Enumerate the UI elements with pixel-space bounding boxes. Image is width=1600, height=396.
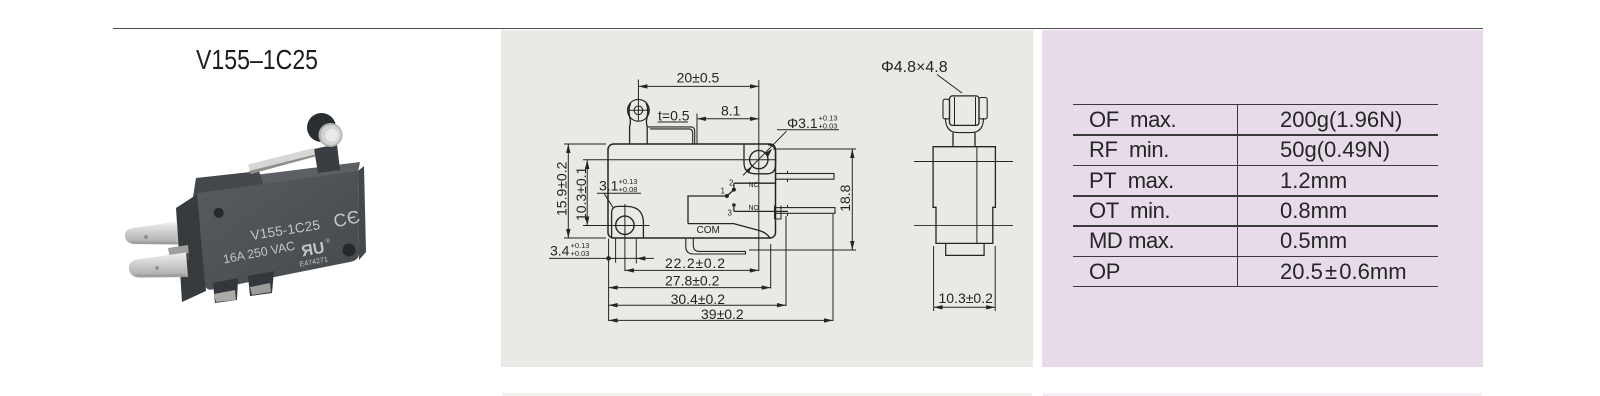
dimension 20±0.5 (638, 70, 759, 143)
product title V155-1C25 (196, 44, 318, 76)
table text (1089, 105, 1449, 287)
dimension 30.4±0.2 (609, 291, 786, 308)
bottom-left mounting boss (612, 206, 644, 237)
lever arm (248, 148, 315, 174)
left side face (176, 193, 206, 302)
dimension 39±0.2 (609, 306, 833, 323)
bottom-left mounting hole (616, 216, 634, 234)
moving contact arm (727, 190, 734, 196)
roller dark back (307, 113, 336, 142)
bottom hole vertical centerline / 22.2 extension (624, 204, 626, 271)
side view centerline 2 (914, 225, 1013, 227)
dimension 18.8 (749, 149, 856, 250)
label Phi 3.1 with tolerance (787, 114, 837, 131)
dimension 10.3±0.1 (573, 160, 589, 226)
NC contact line (734, 182, 776, 184)
bottom feet (213, 278, 238, 303)
roller crosshair (628, 109, 649, 111)
plunger below roller (629, 119, 632, 145)
COM terminal hook (686, 239, 746, 254)
dimension 15.9±0.2 (553, 144, 606, 238)
bottom gray sliver (502, 393, 1032, 396)
front face (197, 171, 359, 290)
top hole vertical centerline / 22.2 extension (758, 143, 760, 271)
table divider (1237, 104, 1238, 288)
pink table panel (1042, 30, 1483, 367)
right terminals (776, 174, 834, 180)
bottom pink sliver (1043, 393, 1482, 396)
lever strip t=0.5 (648, 127, 695, 144)
label 3.4 with tolerance (550, 241, 589, 259)
dimension 10.3±0.2 side view (934, 246, 996, 311)
face hole top-left (214, 208, 224, 218)
bottom dimension extension lines (608, 239, 610, 321)
face hole bottom-right (343, 244, 356, 257)
NC NO labels (749, 182, 760, 212)
hole diameter diagonal leader (743, 131, 787, 175)
top-right mounting hole (750, 150, 768, 168)
side view bracket ears (943, 99, 950, 119)
side view foot (946, 243, 984, 255)
side view stem (952, 133, 954, 147)
terminal T2 (129, 253, 188, 278)
terminal collars (787, 171, 789, 182)
top-right mounting boss (744, 145, 776, 174)
top hole horizontal centerline (583, 159, 775, 161)
gray drawing panel (501, 30, 1033, 367)
technical drawing (SVG) (501, 29, 1033, 367)
right side sliver (358, 166, 366, 260)
label 3.1 with tolerance (599, 177, 637, 194)
bottom-right internal profile (775, 206, 782, 220)
switch photo (SVG) (100, 90, 400, 320)
dimension 22.2±0.2 (625, 255, 759, 272)
side view internal line (976, 147, 978, 244)
internal contact mechanism: COM bracket (688, 196, 770, 238)
side view roller inner edges (954, 97, 956, 125)
roller front view inner circle (634, 106, 643, 115)
terminal T3 hint behind T2 (168, 245, 189, 259)
top-left hump (193, 171, 263, 197)
side view centerline 1 (914, 161, 1013, 163)
3.4 dimension line with dot and arrow (549, 239, 654, 264)
side view bracket U (946, 118, 984, 133)
face texts (222, 206, 362, 269)
dimension 8.1 (697, 102, 759, 144)
roller front face (321, 125, 341, 145)
dimension 27.8±0.2 (609, 273, 771, 290)
terminal T1 (125, 222, 178, 245)
side view roller square (950, 96, 980, 126)
roller front view outer circle (628, 99, 650, 121)
top face (197, 162, 360, 193)
front view body outline (608, 144, 776, 238)
top rule (113, 28, 1483, 30)
pin labels (721, 179, 735, 218)
lever support below roller (314, 144, 340, 173)
bottom hole horizontal centerline (583, 225, 650, 227)
NO contact line (734, 210, 788, 212)
side view body outline (933, 147, 995, 244)
roller side straps (629, 103, 631, 119)
table lines (1073, 104, 1438, 105)
roller bracket rim (319, 123, 343, 147)
